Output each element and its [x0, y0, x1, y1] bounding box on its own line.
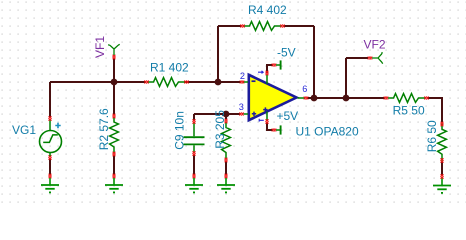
- ground below C9: [185, 174, 203, 193]
- wire R6 bottom to ground: [441, 162, 443, 175]
- wire feedback top left: [218, 25, 241, 27]
- ground below R6: [433, 174, 451, 193]
- resistor R6: [438, 124, 447, 161]
- plus sign inside (supply): [263, 107, 267, 111]
- tiny arrow bottom power: [259, 119, 264, 122]
- wire R2 bottom to ground: [113, 155, 115, 175]
- ground below VG1: [41, 174, 59, 193]
- wire R5 to corner: [428, 97, 442, 99]
- svg-text:R6 50: R6 50: [425, 120, 439, 152]
- resistor R3: [222, 122, 231, 159]
- wire R3 bottom to ground: [225, 161, 227, 175]
- svg-text:R5 50: R5 50: [393, 103, 425, 117]
- svg-text:C9 10n: C9 10n: [172, 111, 186, 150]
- svg-text:R3 205: R3 205: [213, 110, 227, 149]
- top power stub: [266, 75, 268, 84]
- resistor R4: [244, 22, 281, 31]
- pin 3 stub: [244, 113, 249, 115]
- wire feedback top right: [284, 25, 314, 27]
- svg-text:3: 3: [239, 102, 244, 112]
- output stub: [298, 97, 305, 99]
- wire C9 bottom to ground: [193, 155, 195, 175]
- wire VG1 top drop: [49, 82, 51, 117]
- svg-text:VF1: VF1: [93, 36, 107, 58]
- wire feedback right vertical: [313, 26, 315, 98]
- node C9/R3/pin3 junction: [223, 111, 230, 118]
- tiny arrow top power: [258, 71, 263, 74]
- node output/feedback junction: [311, 95, 318, 102]
- svg-text:2: 2: [240, 71, 245, 81]
- wire feedback left vertical: [217, 26, 219, 82]
- pin 2 stub: [244, 81, 249, 83]
- ground below R3: [217, 174, 235, 193]
- wire VF1 probe drop: [113, 58, 115, 82]
- wire -5V supply pin: [267, 65, 273, 73]
- svg-text:VF2: VF2: [364, 38, 386, 52]
- resistor R2: [110, 117, 119, 154]
- wire output run y=98: [307, 97, 385, 99]
- node VF1/R2 junction: [111, 79, 118, 86]
- wire corner down to R6: [441, 97, 443, 122]
- svg-text:R1 402: R1 402: [150, 61, 189, 75]
- wire +5V supply pin: [267, 122, 273, 130]
- source VG1: [40, 116, 62, 159]
- capacitor C9: [184, 119, 205, 155]
- wire R1 to op-amp pin 2: [184, 81, 241, 83]
- probe VF1: [108, 44, 120, 59]
- probe VF2: [368, 52, 383, 64]
- svg-text:U1 OPA820: U1 OPA820: [296, 124, 359, 138]
- minus sign inside: [252, 80, 256, 82]
- supply -5V pin: [272, 60, 281, 69]
- node R1/feedback junction: [215, 79, 222, 86]
- plus sign inside (input): [252, 112, 256, 116]
- svg-text:6: 6: [302, 84, 307, 94]
- resistor R5: [388, 94, 425, 103]
- svg-text:VG1: VG1: [12, 123, 36, 137]
- resistor R1: [148, 78, 185, 87]
- svg-text:R2 57.6: R2 57.6: [97, 108, 111, 150]
- ground below R2: [105, 174, 123, 193]
- wire C9 stub: [193, 114, 195, 120]
- wire VF2 horizontal: [346, 57, 368, 59]
- supply +5V pin: [272, 125, 281, 134]
- svg-text:-5V: -5V: [277, 46, 296, 60]
- svg-text:R4 402: R4 402: [248, 3, 287, 17]
- svg-text:+5V: +5V: [277, 109, 299, 123]
- op-amp U1 triangle: [239, 71, 308, 124]
- wire VF2 drop: [345, 58, 347, 98]
- node VF2 junction: [343, 95, 350, 102]
- wire R3 stub: [225, 114, 227, 119]
- wire node to R2: [113, 82, 115, 115]
- wire C9/R3 node to pin 3: [194, 113, 240, 115]
- bottom power stub: [266, 112, 268, 121]
- wire main input run y=82: [50, 81, 146, 83]
- wire VG1 bottom to ground: [49, 158, 51, 175]
